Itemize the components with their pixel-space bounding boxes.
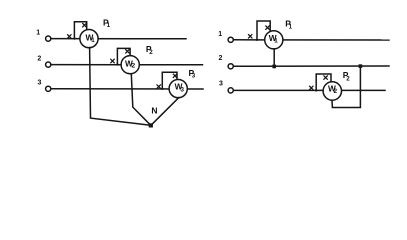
wattmeter W2 potential coil rectangle (right) bbox=[316, 74, 331, 90]
junction blob W2 rect/wire (left) bbox=[116, 63, 118, 65]
wattmeter W1 bbox=[80, 29, 98, 47]
svg-text:2: 2 bbox=[37, 55, 41, 62]
node 2 terminal (right) bbox=[228, 64, 233, 69]
svg-text:3: 3 bbox=[192, 72, 196, 79]
svg-text:1: 1 bbox=[91, 37, 95, 44]
polarity mark in W1 potential coil bbox=[83, 24, 86, 27]
polarity mark in W3 potential coil bbox=[173, 74, 176, 77]
junction blob W3 rect/wire (left) bbox=[161, 88, 163, 90]
wire W3 potential lead to N bbox=[152, 98, 179, 125]
wattmeter W2 bbox=[121, 56, 139, 74]
wire line 2 (right) bbox=[234, 65, 389, 67]
wire W1 potential lead to line 2 bbox=[273, 49, 275, 68]
svg-text:3: 3 bbox=[219, 80, 223, 87]
wattmeter W1 potential coil rectangle bbox=[74, 22, 86, 39]
polarity mark on W3 current coil bbox=[157, 85, 160, 88]
polarity mark on W2 current coil bbox=[111, 59, 114, 62]
polarity mark in W2 potential coil (right) bbox=[324, 76, 327, 79]
wire line 3 (left) bbox=[51, 88, 203, 90]
polarity mark on W1 current coil bbox=[68, 35, 71, 38]
svg-text:2: 2 bbox=[346, 76, 350, 83]
junction blob W1 rect/wire (right) bbox=[256, 39, 258, 41]
wattmeter W2 (right) bbox=[323, 82, 341, 100]
svg-text:3: 3 bbox=[181, 86, 185, 93]
svg-text:N: N bbox=[151, 106, 157, 116]
wattmeter W1 (right) bbox=[265, 31, 283, 49]
polarity mark in W1 potential coil (right) bbox=[266, 26, 269, 29]
wattmeter W3 bbox=[169, 80, 187, 98]
svg-text:1: 1 bbox=[289, 23, 293, 30]
wattmeter W3 potential coil rectangle bbox=[162, 72, 177, 89]
wire W2 potential lead to N bbox=[131, 74, 150, 126]
wattmeter W1 potential coil rectangle (right) bbox=[257, 21, 270, 40]
node 1 terminal (right) bbox=[228, 37, 233, 42]
svg-text:1: 1 bbox=[107, 22, 111, 29]
node N junction dot bbox=[149, 123, 153, 127]
wire line 1 (right) bbox=[234, 39, 389, 41]
svg-text:2: 2 bbox=[131, 62, 135, 69]
wire line 2 (left) bbox=[51, 64, 202, 66]
wire line 1 (left) bbox=[51, 38, 186, 40]
node 3 terminal (right) bbox=[228, 88, 233, 93]
svg-text:2: 2 bbox=[149, 49, 153, 56]
junction blob W1 rect/wire (left) bbox=[73, 37, 75, 39]
svg-text:2: 2 bbox=[219, 55, 223, 62]
node 3 terminal (left) bbox=[46, 86, 51, 91]
svg-text:1: 1 bbox=[274, 38, 278, 45]
svg-text:2: 2 bbox=[334, 88, 338, 95]
svg-text:1: 1 bbox=[218, 31, 222, 38]
wire line 3 (right) bbox=[234, 89, 385, 91]
junction blob W2 rect/wire (right) bbox=[315, 89, 317, 91]
wattmeter W2 potential coil rectangle bbox=[117, 48, 130, 64]
node 1 terminal (left) bbox=[46, 36, 51, 41]
svg-text:1: 1 bbox=[36, 29, 40, 36]
junction dot on line 2 bbox=[272, 65, 276, 69]
wire W2 potential lead to line 2 bbox=[332, 66, 360, 107]
polarity mark in W2 potential coil bbox=[126, 50, 129, 53]
polarity mark on W2 current coil (right) bbox=[310, 86, 313, 89]
node 2 terminal (left) bbox=[46, 62, 51, 67]
polarity mark on W1 current coil (right) bbox=[249, 35, 252, 38]
wire W1 potential lead to N bbox=[90, 48, 151, 126]
svg-text:3: 3 bbox=[38, 79, 42, 86]
junction dot on line 2 (right) bbox=[359, 64, 363, 68]
